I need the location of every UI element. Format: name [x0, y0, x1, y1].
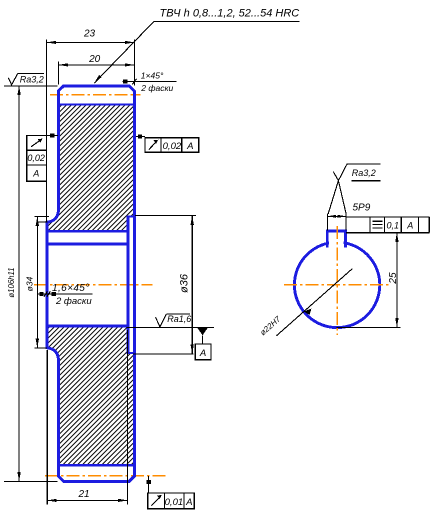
dimension diameter 36: [133, 216, 196, 354]
datum A with bore surface line: [126, 326, 213, 328]
svg-text:A: A: [185, 497, 192, 508]
svg-text:2 фаски: 2 фаски: [140, 83, 173, 93]
runout frame upper right: [136, 136, 199, 152]
svg-text:0,1: 0,1: [387, 221, 400, 231]
svg-text:ø106h11: ø106h11: [7, 267, 16, 297]
recess bottom face: [126, 217, 129, 354]
svg-text:1×45°: 1×45°: [141, 70, 164, 80]
bore bottom edge: [47, 325, 128, 328]
side view centerline vertical: [336, 226, 338, 335]
svg-text:21: 21: [77, 489, 89, 500]
root line top: [59, 103, 135, 105]
side view centerline horizontal: [284, 284, 389, 286]
svg-text:Ra1,6: Ra1,6: [167, 314, 191, 324]
recess top stub: [126, 215, 134, 217]
hatch upper block: [48, 106, 133, 230]
keyway bottom line in section: [47, 230, 128, 233]
svg-text:A: A: [199, 348, 206, 359]
root line bottom: [59, 464, 135, 466]
svg-text:Ra3,2: Ra3,2: [352, 168, 376, 178]
svg-text:2 фаски: 2 фаски: [55, 296, 92, 307]
bore label diameter 22H7: [276, 269, 352, 336]
chamfer callout top 1x45: [123, 81, 177, 83]
svg-text:20: 20: [88, 54, 101, 65]
svg-text:Ra3,2: Ra3,2: [20, 75, 44, 85]
keyway slot: [327, 231, 345, 247]
recess bottom stub: [126, 352, 134, 354]
svg-text:ø36: ø36: [178, 273, 190, 293]
pitch line bottom (orange): [45, 475, 169, 477]
symmetry tolerance frame: [346, 217, 429, 233]
dimension 20: [58, 62, 134, 85]
roughness Ra3,2 keyway: [328, 164, 381, 214]
svg-text:0,02: 0,02: [27, 153, 45, 163]
gear outline: [47, 86, 134, 482]
svg-text:5Р9: 5Р9: [353, 202, 371, 213]
svg-text:25: 25: [388, 272, 399, 285]
roughness Ra1,6: [156, 314, 167, 327]
keyway slot erase arc: [329, 236, 344, 249]
hatch lower block: [48, 327, 133, 464]
dimension 23 top: [47, 40, 135, 223]
keyway dimension 5P9: [328, 214, 347, 231]
svg-text:0,02: 0,02: [163, 141, 182, 152]
axis centerline (orange): [34, 284, 152, 286]
dimension diameter 34: [35, 217, 49, 348]
dimension 25: [337, 233, 401, 328]
runout frame bottom: [148, 476, 195, 509]
roughness Ra3,2 top left: [8, 73, 17, 84]
svg-text:A: A: [406, 221, 413, 231]
chamfer callout middle 1,6x45: [37, 293, 92, 295]
svg-text:ТВЧ h 0,8...1,2, 52...54 HRC: ТВЧ h 0,8...1,2, 52...54 HRC: [160, 8, 300, 20]
bore top edge: [47, 242, 128, 245]
svg-text:A: A: [186, 141, 193, 152]
dimension 21 bottom: [47, 330, 127, 504]
svg-text:A: A: [32, 169, 39, 179]
svg-text:1,6×45°: 1,6×45°: [52, 283, 90, 294]
dimension diameter 106 h11: [4, 86, 57, 482]
runout frame left: [27, 136, 58, 182]
svg-text:23: 23: [83, 29, 96, 40]
pitch line top (orange): [50, 94, 140, 96]
svg-text:ø34: ø34: [24, 276, 34, 291]
bore circle: [294, 242, 379, 327]
svg-text:0,01: 0,01: [165, 497, 184, 508]
